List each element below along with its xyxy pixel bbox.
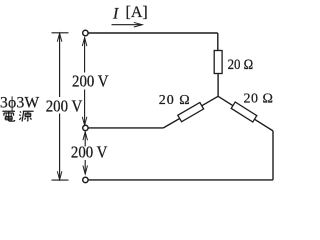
svg-text:200 V: 200 V — [71, 144, 108, 162]
svg-text:3ϕ3W: 3ϕ3W — [0, 95, 40, 112]
svg-text:200 V: 200 V — [72, 73, 109, 91]
svg-text:20 Ω: 20 Ω — [228, 56, 254, 72]
svg-text:I: I — [112, 5, 119, 22]
svg-text:20 Ω: 20 Ω — [159, 93, 191, 108]
svg-text:20 Ω: 20 Ω — [244, 92, 274, 107]
svg-text:[A]: [A] — [126, 4, 148, 21]
svg-text:200 V: 200 V — [46, 98, 83, 116]
